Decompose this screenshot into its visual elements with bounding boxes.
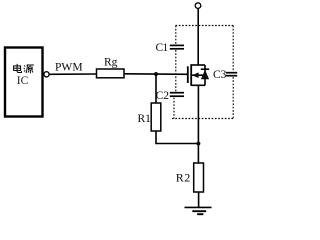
- resistor Rg: [97, 69, 125, 78]
- wire R1 bottom to source node: [156, 131, 198, 144]
- diode branch vertical: [204, 65, 206, 85]
- wire PWM: terminal to Rg: [49, 73, 96, 75]
- svg-text:C3: C3: [213, 69, 227, 81]
- resistor R1: [151, 103, 161, 131]
- svg-text:Rg: Rg: [104, 56, 118, 68]
- node junction source / R2: [196, 142, 200, 146]
- pin terminal circle on IC output: [44, 72, 49, 77]
- right dashed edge (interrupted by C3): [232, 26, 234, 72]
- svg-text:IC: IC: [17, 75, 29, 87]
- svg-text:R1: R1: [138, 113, 152, 125]
- capacitor C2 plates: [170, 93, 184, 97]
- ground symbol: [185, 207, 212, 214]
- left dashed edge segment C2 to bottom: [173, 98, 175, 119]
- hanzi 源 (drawn as strokes): [24, 65, 34, 73]
- wire source down to R2 node: [197, 85, 199, 163]
- gate bar: [187, 66, 189, 83]
- body diode cathode bar: [201, 68, 209, 70]
- body stub with substrate arrow: [192, 74, 205, 76]
- hanzi 电 (drawn as strokes): [14, 64, 22, 73]
- terminal circle top (drain supply): [195, 3, 201, 9]
- node junction gate wire / R1 branch: [154, 72, 158, 76]
- capacitor C1 plates: [170, 45, 184, 48]
- svg-text:C2: C2: [156, 90, 170, 102]
- left dashed edge segment C1 to C2: [175, 50, 177, 91]
- top dashed edge: [176, 25, 234, 27]
- svg-text:PWM: PWM: [55, 61, 83, 73]
- wire drain: top terminal down to MOSFET: [197, 9, 199, 65]
- svg-text:R2: R2: [176, 170, 191, 184]
- left dashed edge segment top to C1: [175, 26, 177, 45]
- bottom dashed edge: [172, 118, 234, 120]
- capacitor C3 plates: [226, 73, 237, 76]
- svg-text:C1: C1: [156, 42, 169, 54]
- wire R2 to ground: [198, 192, 200, 207]
- resistor R2: [194, 163, 204, 192]
- body diode triangle: [201, 70, 209, 79]
- channel bar: [190, 64, 192, 86]
- wire R1 branch down: [155, 74, 157, 103]
- wire: Rg to gate: [124, 73, 188, 76]
- source lead: [191, 84, 205, 86]
- dashed parasitic box around MOSFET: [172, 26, 234, 119]
- power IC box U1 (labelled 电源 IC): [5, 48, 43, 117]
- drain lead: [191, 64, 205, 66]
- transistor Q1 N-MOSFET with body diode: [188, 64, 209, 86]
